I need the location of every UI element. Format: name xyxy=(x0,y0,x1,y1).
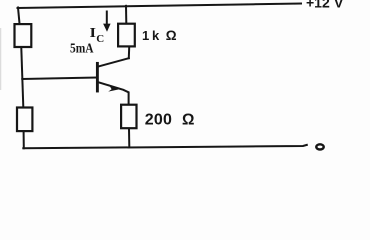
node: base junction / wire to base xyxy=(22,78,96,80)
resistor R4 200 ohm xyxy=(121,105,136,129)
svg-text:+12: +12 xyxy=(306,0,330,11)
svg-text:200: 200 xyxy=(145,111,172,128)
wire: 1k resistor to collector xyxy=(128,47,130,58)
svg-text:k: k xyxy=(152,28,160,43)
resistor R1 (upper-left, unlabeled) xyxy=(15,24,32,47)
svg-text:C: C xyxy=(96,33,104,45)
label: 0 V rail xyxy=(316,144,323,149)
transistor Q1 collector lead xyxy=(99,58,129,66)
svg-text:1: 1 xyxy=(142,28,149,43)
svg-text:I: I xyxy=(90,26,97,41)
svg-text:Ω: Ω xyxy=(182,111,194,128)
transistor Q1 base bar xyxy=(96,63,99,91)
wire: left rail middle segment xyxy=(21,48,23,107)
wire: +12V top rail xyxy=(18,4,302,9)
scan artifact: faint left edge line xyxy=(0,28,2,90)
resistor R2 (lower-left, unlabeled) xyxy=(17,108,32,132)
svg-text:5mA: 5mA xyxy=(70,41,94,56)
transistor Q1 emitter arrowhead xyxy=(108,84,119,91)
svg-text:V: V xyxy=(334,0,344,11)
wire: top rail to 1k resistor xyxy=(125,6,127,23)
transistor Q1 emitter lead xyxy=(99,82,129,104)
wire: left rail top segment xyxy=(18,8,20,24)
current arrow Ic head xyxy=(103,24,111,32)
wire: 200 ohm resistor to bottom rail xyxy=(128,129,130,147)
wire: 0V bottom rail xyxy=(23,145,307,148)
wire: left rail bottom segment xyxy=(23,132,25,148)
svg-text:Ω: Ω xyxy=(166,28,177,43)
current arrow Ic shaft xyxy=(106,12,108,26)
resistor R3 1k ohm xyxy=(118,24,135,47)
